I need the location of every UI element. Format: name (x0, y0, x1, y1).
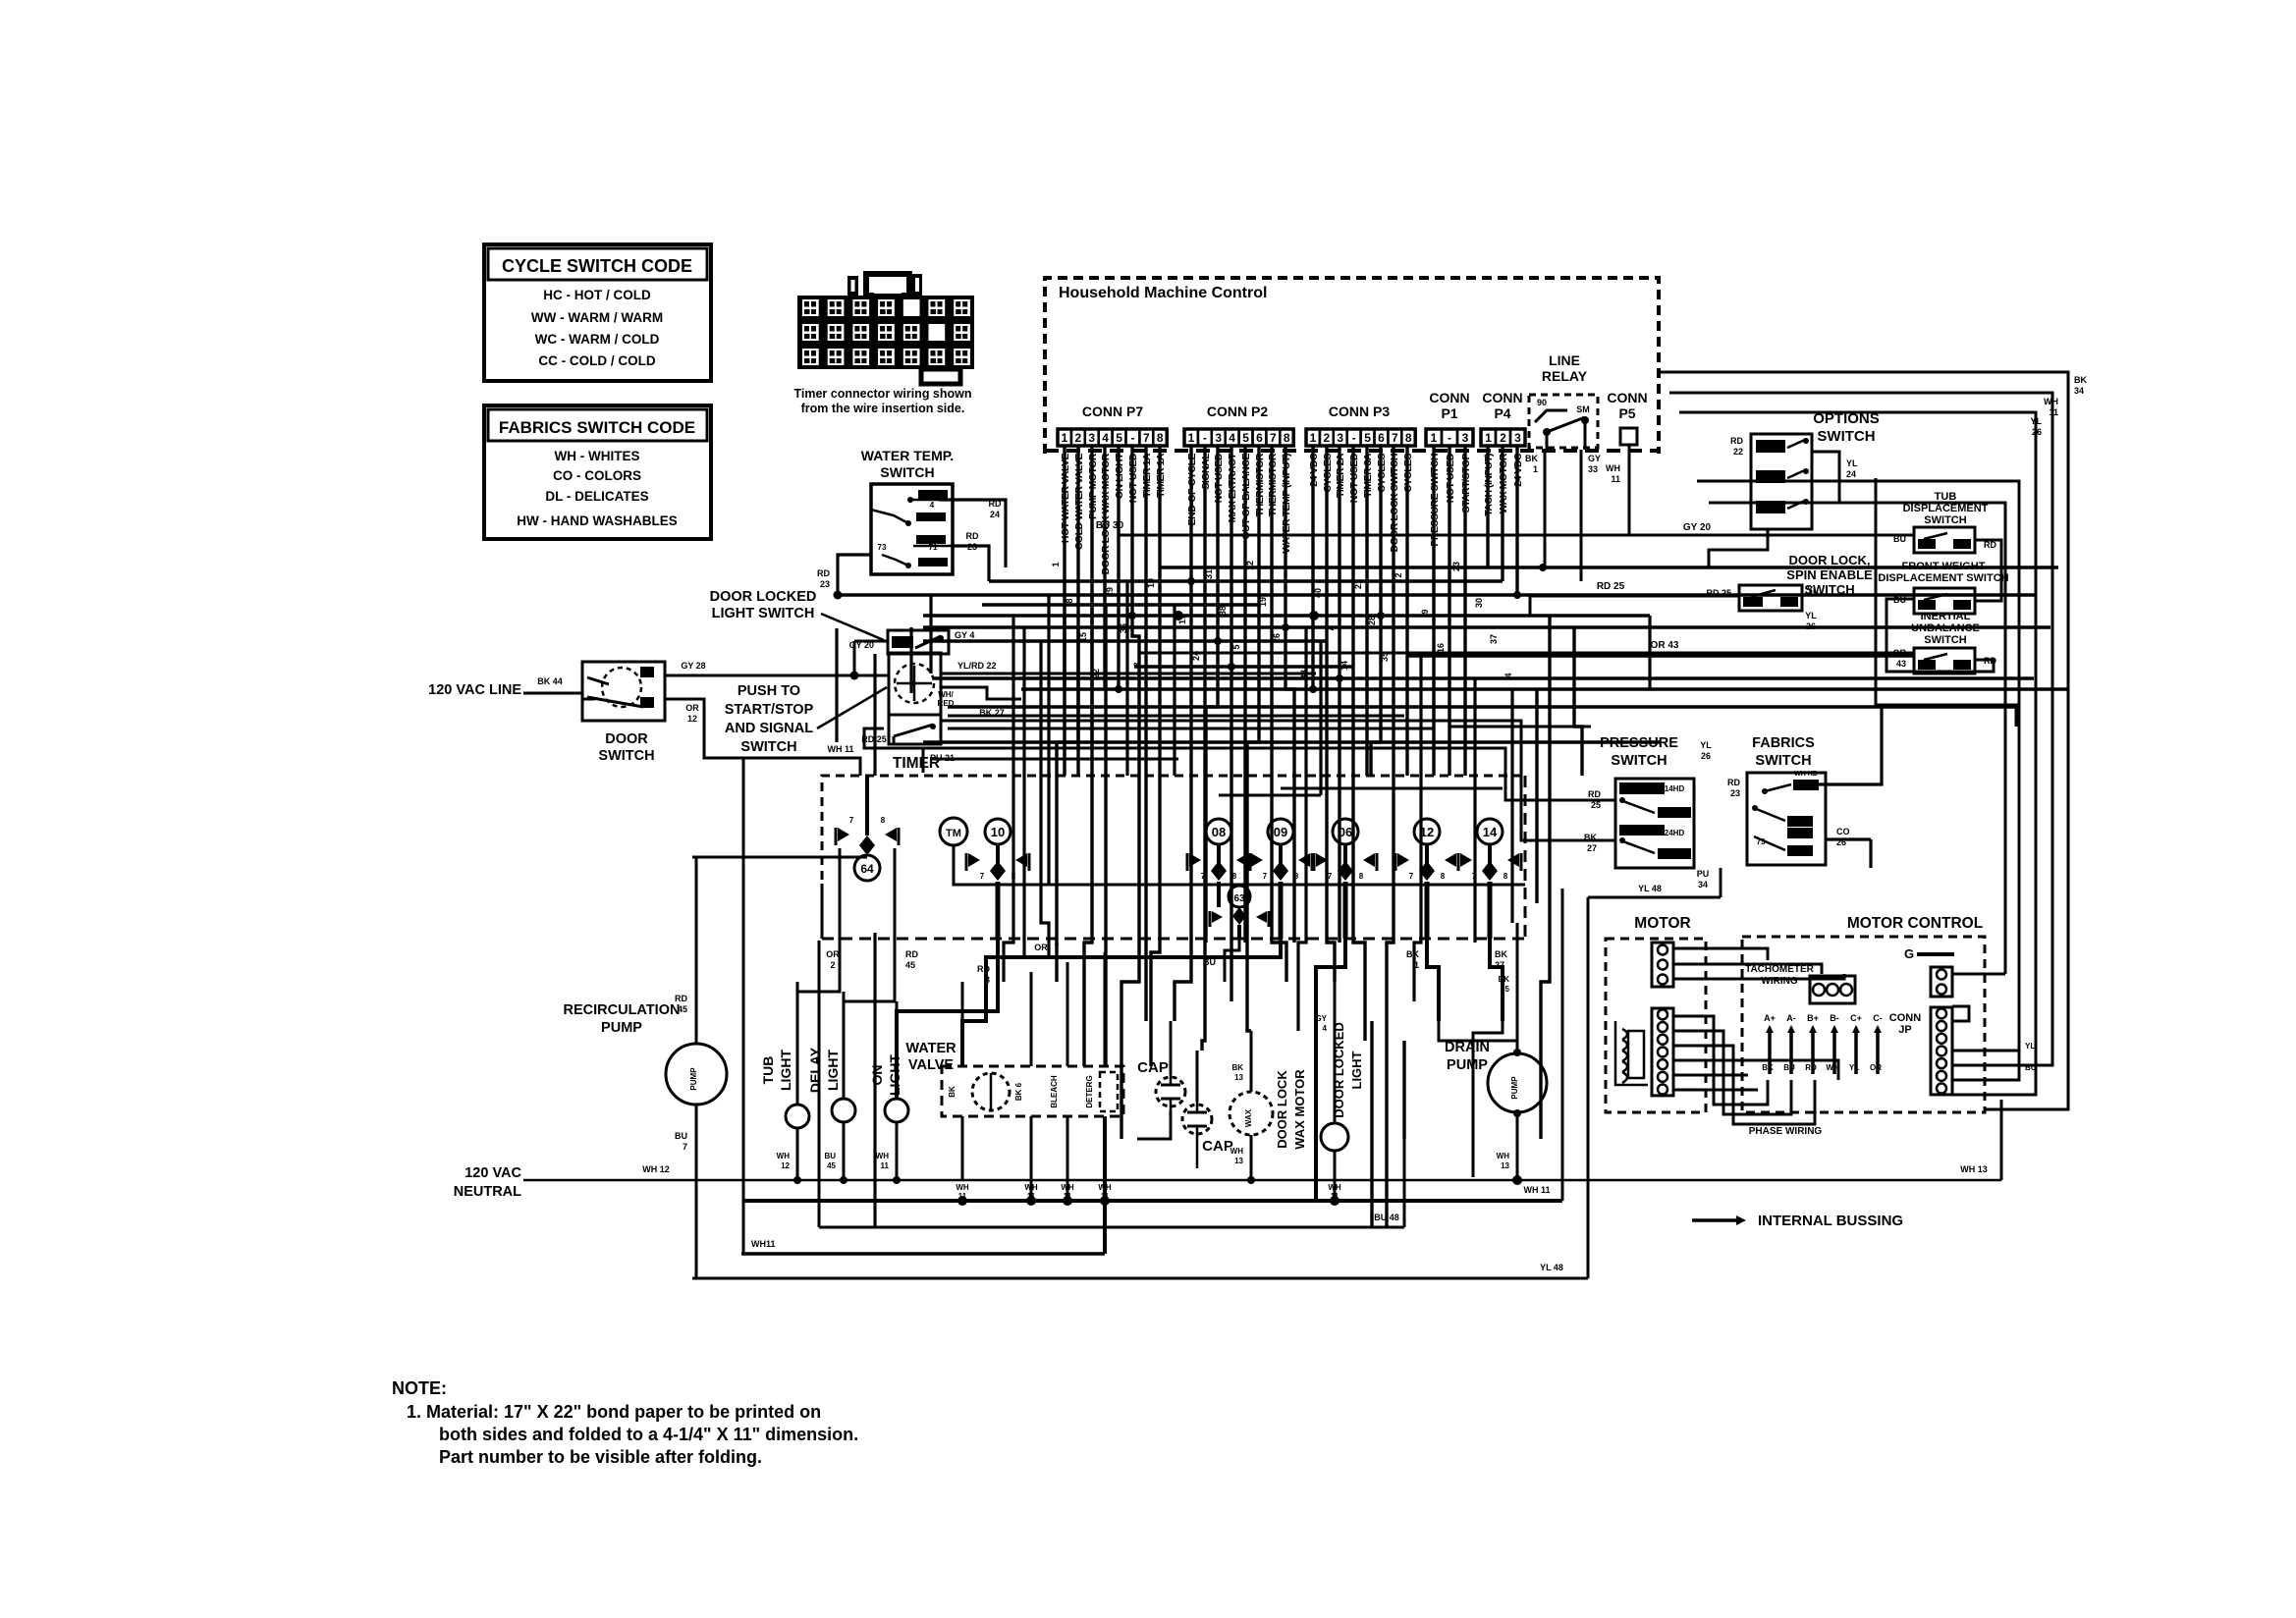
svg-text:45: 45 (905, 960, 915, 970)
svg-text:YL: YL (1805, 611, 1817, 620)
svg-text:HW - HAND WASHABLES: HW - HAND WASHABLES (517, 513, 678, 528)
svg-text:YL: YL (1807, 585, 1819, 595)
svg-text:HC - HOT / COLD: HC - HOT / COLD (543, 288, 651, 302)
svg-text:PUMP: PUMP (1510, 1076, 1519, 1100)
switch DOOR LOCKED LIGHT SWITCH (888, 630, 949, 654)
svg-text:BK 44: BK 44 (537, 676, 563, 686)
svg-text:YL: YL (2030, 416, 2042, 426)
svg-text:RD: RD (989, 499, 1002, 509)
motor dashed box (1606, 939, 1706, 1112)
wires horizontal distribution band (1160, 566, 2058, 568)
svg-text:8: 8 (1294, 872, 1299, 881)
svg-text:SM: SM (1576, 404, 1590, 414)
svg-text:SWITCH: SWITCH (1755, 753, 1811, 769)
svg-text:TM: TM (946, 828, 961, 839)
svg-text:WH 11: WH 11 (1523, 1185, 1550, 1195)
lamp ON LIGHT (885, 1099, 908, 1122)
timer internal wires (865, 776, 869, 805)
svg-text:7: 7 (1270, 431, 1277, 445)
svg-text:34: 34 (1698, 880, 1708, 890)
svg-text:P4: P4 (1494, 405, 1510, 421)
svg-text:TIMER: TIMER (893, 755, 940, 772)
svg-text:11: 11 (1027, 1192, 1036, 1201)
svg-text:1: 1 (1533, 464, 1538, 474)
svg-text:7: 7 (1263, 872, 1268, 881)
svg-text:1: 1 (1188, 431, 1195, 445)
switch PUSH TO START/STOP (889, 653, 941, 744)
svg-text:2: 2 (1500, 431, 1506, 445)
svg-text:8: 8 (1503, 872, 1508, 881)
svg-text:WH 13: WH 13 (1960, 1164, 1988, 1174)
switch OPTIONS SWITCH (1751, 434, 1812, 529)
svg-text:DOOR LOCK,: DOOR LOCK, (1788, 553, 1870, 567)
svg-text:7: 7 (1143, 431, 1150, 445)
svg-text:C-: C- (1873, 1013, 1883, 1023)
svg-text:8: 8 (1405, 431, 1412, 445)
svg-text:G: G (1904, 946, 1914, 961)
svg-text:YL: YL (1849, 1063, 1859, 1072)
wire 120 VAC NEUTRAL bus (523, 1179, 2001, 1182)
wire fabrics right co (1825, 837, 1871, 840)
svg-text:CAP: CAP (1202, 1138, 1233, 1155)
svg-text:90: 90 (1537, 398, 1547, 407)
svg-text:INERTIAL: INERTIAL (1921, 611, 1971, 622)
svg-text:DRAIN: DRAIN (1445, 1040, 1490, 1055)
svg-text:26: 26 (1836, 837, 1846, 847)
svg-text:SWITCH: SWITCH (740, 739, 796, 755)
svg-text:DOOR LOCKED: DOOR LOCKED (710, 589, 817, 605)
svg-text:CONN P7: CONN P7 (1082, 404, 1143, 419)
svg-text:SWITCH: SWITCH (880, 464, 934, 480)
relay LINE RELAY (1529, 395, 1598, 448)
switch FRONT WEIGHT DISPLACEMENT SWITCH (1914, 588, 1975, 614)
wire stair 928 (909, 627, 912, 693)
pump RECIRCULATION PUMP (666, 1044, 727, 1105)
svg-text:PHASE WIRING: PHASE WIRING (1749, 1126, 1823, 1137)
svg-text:45: 45 (678, 1004, 687, 1014)
svg-text:WH: WH (956, 1183, 969, 1192)
svg-text:7: 7 (1409, 872, 1414, 881)
svg-text:WH 12: WH 12 (642, 1164, 670, 1174)
svg-text:3: 3 (1462, 431, 1469, 445)
svg-text:23: 23 (820, 579, 830, 589)
wire timer drop 14 down (1490, 939, 1503, 1021)
wire timer drop RD 45 (844, 848, 895, 1099)
svg-text:25: 25 (1591, 800, 1601, 810)
svg-text:2: 2 (830, 960, 835, 970)
svg-text:FRONT WEIGHT: FRONT WEIGHT (1902, 561, 1986, 572)
svg-text:6: 6 (1378, 431, 1385, 445)
svg-text:CONN P3: CONN P3 (1329, 404, 1390, 419)
svg-text:14HD: 14HD (1665, 784, 1685, 793)
wire drain pump top (1516, 923, 1519, 1052)
svg-text:INTERNAL BUSSING: INTERNAL BUSSING (1758, 1213, 1903, 1229)
svg-text:2: 2 (1394, 572, 1403, 577)
connector CONN P4 (1481, 429, 1496, 446)
svg-text:RD: RD (977, 964, 990, 974)
svg-text:2: 2 (1075, 431, 1082, 445)
timer contact 06 (1333, 819, 1358, 844)
svg-text:120 VAC LINE: 120 VAC LINE (428, 682, 521, 698)
svg-text:11: 11 (2049, 407, 2058, 417)
wire recirc pump feed (695, 857, 698, 1044)
svg-text:FABRICS: FABRICS (1752, 735, 1815, 751)
svg-text:5: 5 (1116, 431, 1122, 445)
svg-text:BK: BK (1762, 1063, 1774, 1072)
svg-text:TUB: TUB (1935, 491, 1957, 503)
svg-text:CONN: CONN (1607, 390, 1647, 405)
svg-text:37: 37 (1489, 634, 1499, 644)
svg-text:from the wire insertion side.: from the wire insertion side. (801, 402, 965, 415)
svg-text:BK: BK (1495, 949, 1507, 959)
switch DOOR LOCK SPIN ENABLE (1739, 585, 1802, 611)
svg-text:DETERG: DETERG (1085, 1075, 1094, 1107)
svg-text:DISPLACEMENT SWITCH: DISPLACEMENT SWITCH (1878, 572, 2008, 584)
svg-text:RD: RD (1588, 789, 1601, 799)
svg-text:PRESSURE: PRESSURE (1600, 735, 1678, 751)
svg-text:8: 8 (1441, 872, 1446, 881)
svg-text:DELAY: DELAY (807, 1047, 823, 1093)
svg-text:MOTOR CONTROL: MOTOR CONTROL (1847, 915, 1983, 932)
svg-text:26: 26 (2032, 427, 2042, 437)
svg-text:MOTOR: MOTOR (1634, 915, 1690, 932)
svg-text:31: 31 (1204, 569, 1214, 579)
svg-text:2: 2 (1324, 431, 1331, 445)
svg-text:12: 12 (687, 714, 697, 724)
timer contact TM (940, 818, 967, 845)
motor DOOR LOCK WAX MOTOR (1230, 1092, 1273, 1135)
wire WH 11 bus (743, 1199, 1562, 1203)
svg-text:GY: GY (1588, 454, 1601, 463)
wire YL48 horizontal (1588, 896, 1721, 899)
wire relay drop 2 (1580, 450, 1583, 581)
connector CONN P2 (1184, 429, 1198, 446)
svg-text:BK: BK (1584, 833, 1597, 842)
svg-text:71: 71 (929, 543, 938, 552)
svg-text:26: 26 (1806, 621, 1816, 631)
svg-text:1: 1 (1310, 431, 1317, 445)
svg-text:A+: A+ (1764, 1013, 1776, 1023)
svg-text:09: 09 (1274, 825, 1287, 839)
svg-text:1: 1 (1062, 431, 1068, 445)
svg-text:WH: WH (2044, 397, 2058, 406)
svg-text:3: 3 (1215, 431, 1222, 445)
svg-text:73: 73 (1757, 837, 1766, 846)
svg-text:CYCLE SWITCH CODE: CYCLE SWITCH CODE (502, 256, 692, 276)
svg-text:27: 27 (1587, 843, 1597, 853)
wire recirc pump bottom (695, 1105, 698, 1278)
svg-text:LIGHT SWITCH: LIGHT SWITCH (712, 606, 815, 621)
svg-text:WH: WH (1230, 1147, 1244, 1156)
svg-text:WH: WH (1098, 1183, 1112, 1192)
svg-text:11: 11 (1101, 1192, 1110, 1201)
switch PRESSURE SWITCH (1615, 779, 1694, 868)
wire stair 948 (929, 595, 932, 674)
svg-text:BLEACH: BLEACH (1050, 1075, 1059, 1108)
wires connector pin drops (1063, 447, 1066, 776)
svg-text:-: - (1448, 431, 1451, 445)
svg-text:CONN P2: CONN P2 (1207, 404, 1268, 419)
svg-text:RD 25: RD 25 (861, 734, 887, 744)
wire options right (1812, 452, 1839, 503)
wire bus 1277 (741, 1252, 1105, 1256)
svg-text:PU: PU (1697, 869, 1710, 879)
svg-text:B+: B+ (1807, 1013, 1819, 1023)
connector motor top (1652, 943, 1673, 987)
svg-text:22: 22 (1733, 447, 1743, 457)
svg-text:14: 14 (1483, 825, 1498, 839)
switch TUB DISPLACEMENT SWITCH (1914, 527, 1975, 553)
svg-text:BU: BU (824, 1152, 836, 1160)
svg-text:11: 11 (1064, 1192, 1072, 1201)
timer contact 14 (1477, 819, 1503, 844)
timer contact 12 (1414, 819, 1440, 844)
svg-text:SWITCH: SWITCH (1924, 514, 1966, 526)
svg-text:WH 11: WH 11 (827, 744, 853, 754)
svg-text:8: 8 (1232, 872, 1237, 881)
svg-text:BK: BK (2074, 375, 2087, 385)
wire conn P5 drop (1628, 445, 1631, 535)
timer contact 64 (854, 855, 880, 881)
svg-text:BU: BU (1203, 957, 1216, 967)
svg-text:8: 8 (1284, 431, 1290, 445)
svg-text:RD: RD (1727, 778, 1740, 787)
svg-text:GY 28: GY 28 (681, 661, 705, 671)
svg-text:RD: RD (905, 949, 918, 959)
pump DRAIN PUMP (1488, 1053, 1547, 1112)
svg-text:RD: RD (817, 568, 830, 578)
svg-text:Part number to be visible afte: Part number to be visible after folding. (439, 1447, 762, 1467)
wire drain pump bottom (1516, 1113, 1519, 1177)
wire water temp right mid (953, 546, 989, 581)
svg-text:4: 4 (1102, 431, 1109, 445)
svg-text:P1: P1 (1441, 405, 1457, 421)
svg-text:13: 13 (1501, 1161, 1509, 1170)
svg-text:JP: JP (1898, 1024, 1911, 1036)
svg-text:4: 4 (930, 501, 935, 510)
wire water valve drops (961, 982, 964, 1066)
svg-text:24: 24 (1846, 469, 1856, 479)
svg-text:BU: BU (675, 1131, 687, 1141)
svg-text:5: 5 (1364, 431, 1371, 445)
svg-text:24: 24 (990, 510, 1000, 519)
wires right side frame (1659, 372, 2068, 1109)
svg-text:13: 13 (1234, 1157, 1243, 1165)
svg-text:3: 3 (1514, 431, 1521, 445)
lamp DOOR LOCKED LIGHT (1321, 1123, 1348, 1151)
svg-text:6: 6 (1256, 431, 1263, 445)
svg-text:WH11: WH11 (751, 1239, 776, 1249)
svg-text:ON: ON (869, 1065, 885, 1086)
svg-text:8: 8 (1065, 598, 1074, 603)
phase vertical wires (1768, 1031, 1772, 1074)
svg-text:both sides and folded to a 4-1: both sides and folded to a 4-1/4" X 11" … (439, 1425, 858, 1444)
wire bus 1302 (692, 1277, 1588, 1280)
svg-text:WAX MOTOR: WAX MOTOR (1292, 1069, 1307, 1150)
svg-text:43: 43 (1896, 659, 1906, 669)
svg-text:-: - (1203, 431, 1207, 445)
svg-text:1: 1 (1414, 960, 1419, 970)
svg-text:4: 4 (1323, 1024, 1328, 1033)
svg-text:CO: CO (1836, 827, 1850, 836)
svg-text:45: 45 (827, 1161, 836, 1170)
wire relay drop 1 (1544, 450, 1547, 567)
svg-text:RD: RD (1805, 1063, 1817, 1072)
svg-text:BU 48: BU 48 (1374, 1213, 1399, 1222)
svg-text:BK: BK (1525, 454, 1538, 463)
svg-text:TACHOMETER: TACHOMETER (1745, 964, 1815, 975)
svg-text:CC - COLD / COLD: CC - COLD / COLD (538, 353, 655, 368)
wire delay light (843, 992, 846, 1099)
wire corner 1680 (1648, 616, 1651, 689)
connector mc top right (1931, 967, 1952, 997)
svg-text:WH: WH (777, 1152, 791, 1160)
svg-text:30: 30 (1474, 598, 1484, 608)
svg-text:P5: P5 (1618, 405, 1635, 421)
svg-text:WAX: WAX (1244, 1108, 1253, 1127)
svg-text:A-: A- (1786, 1013, 1796, 1023)
wire tub light (796, 982, 799, 1105)
svg-text:RECIRCULATION: RECIRCULATION (564, 1002, 681, 1018)
svg-text:7: 7 (1201, 872, 1206, 881)
svg-text:1: 1 (1431, 431, 1438, 445)
wire 120 VAC LINE (523, 692, 582, 695)
wires weave vertical continuations (1063, 616, 1066, 689)
svg-text:24HD: 24HD (1665, 829, 1685, 837)
wire door switch down (665, 699, 743, 758)
svg-text:OR 43: OR 43 (1651, 640, 1679, 651)
switch DOOR SWITCH (582, 662, 665, 721)
svg-text:PUSH TO: PUSH TO (738, 683, 800, 699)
svg-text:3: 3 (1088, 431, 1095, 445)
svg-text:BK 27: BK 27 (979, 708, 1005, 718)
legend box FABRICS SWITCH CODE (484, 405, 711, 539)
wire water temp left drop (838, 555, 871, 595)
svg-text:CONN: CONN (1889, 1012, 1921, 1024)
wire caps (1170, 1021, 1173, 1074)
svg-text:CO - COLORS: CO - COLORS (553, 468, 641, 483)
svg-text:BK: BK (1406, 949, 1419, 959)
svg-text:NOTE:: NOTE: (392, 1378, 447, 1398)
wire on light (896, 1001, 899, 1099)
capacitor CAP 1 (1156, 1077, 1185, 1106)
svg-text:PUMP: PUMP (601, 1020, 642, 1036)
svg-text:LIGHT: LIGHT (825, 1050, 841, 1091)
svg-text:06: 06 (1339, 825, 1352, 839)
svg-text:WH: WH (876, 1152, 890, 1160)
svg-text:SWITCH: SWITCH (598, 748, 654, 764)
svg-text:C+: C+ (1850, 1013, 1862, 1023)
svg-text:RD: RD (1730, 436, 1743, 446)
svg-text:33: 33 (1588, 464, 1598, 474)
svg-text:OR: OR (826, 949, 840, 959)
svg-text:DOOR: DOOR (605, 731, 648, 747)
wire door switch out top (665, 674, 889, 677)
svg-text:11: 11 (881, 1161, 890, 1170)
svg-text:Timer connector wiring shown: Timer connector wiring shown (793, 387, 971, 401)
svg-text:LINE: LINE (1549, 352, 1580, 368)
svg-text:Household Machine Control: Household Machine Control (1059, 285, 1267, 301)
svg-text:11: 11 (1611, 474, 1620, 484)
switch WATER TEMP. SWITCH (871, 484, 953, 574)
wire wax motor (1250, 1031, 1253, 1092)
connector CONN P3 (1306, 429, 1320, 446)
connector CONN P7 (1058, 429, 1071, 446)
svg-text:WH: WH (1328, 1183, 1341, 1192)
svg-text:GY 20: GY 20 (1683, 522, 1712, 533)
svg-text:64: 64 (860, 862, 874, 876)
svg-text:OR: OR (685, 703, 699, 713)
svg-text:SWITCH: SWITCH (1924, 634, 1966, 646)
motor control dashed box (1742, 937, 1985, 1112)
svg-text:LIGHT: LIGHT (1349, 1051, 1364, 1089)
svg-text:RELAY: RELAY (1542, 368, 1588, 384)
svg-text:35: 35 (1501, 985, 1509, 994)
svg-text:27: 27 (1495, 960, 1504, 970)
svg-text:WH: WH (1024, 1183, 1038, 1192)
svg-text:BK: BK (948, 1086, 957, 1098)
svg-text:SWITCH: SWITCH (1817, 428, 1875, 445)
svg-text:23: 23 (1730, 788, 1740, 798)
wire timer drop 12 down (1427, 939, 1439, 1021)
connector mc right (1931, 1007, 1952, 1095)
wire door locked light (1334, 982, 1337, 1123)
wire timer drop OR 2 (797, 848, 840, 1105)
svg-text:12: 12 (1420, 825, 1434, 839)
svg-text:LIGHT: LIGHT (887, 1054, 902, 1096)
svg-text:BK 6: BK 6 (1014, 1082, 1023, 1101)
svg-text:WH HD: WH HD (1794, 771, 1818, 778)
svg-text:WATER: WATER (905, 1041, 957, 1056)
svg-text:5: 5 (1242, 431, 1249, 445)
svg-text:1. Material: 17" X 22" bond: 1. Material: 17" X 22" bond paper to be … (407, 1402, 821, 1422)
svg-text:26: 26 (1701, 751, 1711, 761)
svg-text:YL: YL (2025, 1042, 2035, 1051)
switch FABRICS SWITCH (1747, 773, 1826, 865)
svg-text:8: 8 (1157, 431, 1164, 445)
svg-text:RD: RD (675, 994, 687, 1003)
svg-text:AND SIGNAL: AND SIGNAL (725, 721, 813, 736)
svg-text:CAP: CAP (1137, 1059, 1169, 1076)
svg-text:TUB: TUB (760, 1056, 776, 1085)
svg-text:DL - DELICATES: DL - DELICATES (545, 489, 648, 504)
connector CONN P1 (1426, 429, 1442, 446)
wires motor to control (1673, 948, 1768, 960)
svg-text:YL: YL (1846, 458, 1858, 468)
svg-text:SPIN ENABLE: SPIN ENABLE (1786, 567, 1873, 582)
Household Machine Control dashed box (1045, 278, 1659, 454)
svg-text:34: 34 (2074, 386, 2084, 396)
capacitor CAP 2 (1182, 1105, 1212, 1134)
wire WH11 vertical (743, 758, 860, 1254)
wire mid drops join (1439, 1021, 1517, 1052)
svg-text:OR: OR (1870, 1063, 1882, 1072)
wire timer drop 06 down (1316, 939, 1345, 1201)
wire timer drop to water valve (962, 939, 1281, 1066)
svg-text:RD 25: RD 25 (1597, 581, 1625, 592)
wires mc to right bus (1952, 973, 2005, 976)
svg-text:08: 08 (1212, 825, 1226, 839)
timer contact 10 (985, 819, 1011, 844)
svg-text:NEUTRAL: NEUTRAL (454, 1184, 521, 1200)
svg-text:73: 73 (878, 543, 887, 552)
wire water temp right top (939, 500, 1006, 567)
svg-text:10: 10 (991, 825, 1005, 839)
svg-text:BU: BU (2025, 1063, 2037, 1072)
svg-text:DISPLACEMENT: DISPLACEMENT (1903, 503, 1989, 514)
svg-text:WW - WARM / WARM: WW - WARM / WARM (531, 310, 663, 325)
timer connector block (797, 296, 974, 369)
